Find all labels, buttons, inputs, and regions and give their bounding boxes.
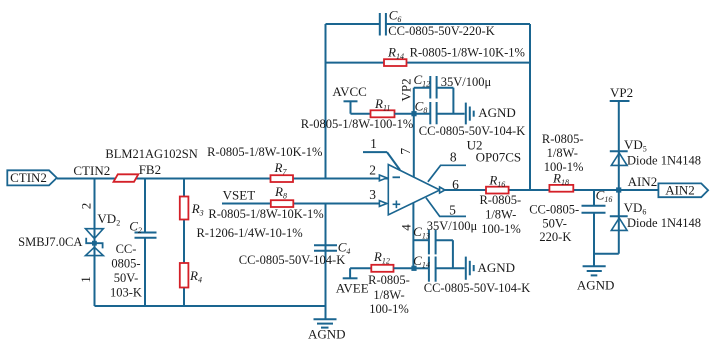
- svg-text:R-0805-1/8W-10K-1%: R-0805-1/8W-10K-1%: [208, 207, 323, 221]
- svg-text:FB2: FB2: [139, 162, 161, 177]
- svg-text:CC-0805-50V-104-K: CC-0805-50V-104-K: [239, 253, 345, 267]
- svg-text:SMBJ7.0CA: SMBJ7.0CA: [18, 235, 82, 249]
- svg-text:35V/100μ: 35V/100μ: [427, 219, 478, 233]
- svg-text:AIN2: AIN2: [665, 183, 695, 198]
- svg-text:VP2: VP2: [398, 78, 413, 101]
- svg-text:1/8W-: 1/8W-: [547, 146, 578, 160]
- svg-text:Diode 1N4148: Diode 1N4148: [627, 216, 701, 230]
- svg-text:R-0805-: R-0805-: [542, 132, 584, 146]
- svg-text:3: 3: [369, 187, 376, 202]
- svg-text:Diode 1N4148: Diode 1N4148: [627, 153, 701, 167]
- svg-text:AGND: AGND: [308, 327, 346, 342]
- svg-text:6: 6: [452, 177, 459, 192]
- svg-text:VSET: VSET: [223, 187, 256, 202]
- svg-text:0805-: 0805-: [111, 257, 140, 271]
- svg-text:R-0805-1/8W-10K-1%: R-0805-1/8W-10K-1%: [207, 145, 322, 159]
- svg-text:AIN2: AIN2: [628, 174, 658, 189]
- svg-text:OP07CS: OP07CS: [476, 149, 522, 164]
- svg-text:AVEE: AVEE: [336, 280, 369, 295]
- svg-text:AVCC: AVCC: [332, 84, 366, 99]
- svg-text:100-1%: 100-1%: [481, 222, 521, 236]
- svg-text:1: 1: [370, 136, 377, 151]
- svg-text:CTIN2: CTIN2: [73, 163, 110, 178]
- svg-text:1/8W-: 1/8W-: [485, 208, 516, 222]
- svg-text:1/8W-: 1/8W-: [373, 288, 404, 302]
- svg-text:BLM21AG102SN: BLM21AG102SN: [105, 147, 197, 161]
- svg-text:CC-0805-: CC-0805-: [529, 202, 579, 216]
- svg-text:5: 5: [449, 203, 456, 218]
- svg-text:CC-0805-50V-104-K: CC-0805-50V-104-K: [424, 281, 530, 295]
- svg-text:50V-: 50V-: [114, 271, 139, 285]
- svg-text:35V/100μ: 35V/100μ: [441, 75, 492, 89]
- svg-text:2: 2: [79, 203, 94, 210]
- svg-text:100-1%: 100-1%: [544, 160, 584, 174]
- svg-text:8: 8: [450, 150, 457, 165]
- svg-text:CC-0805-50V-104-K: CC-0805-50V-104-K: [419, 124, 525, 138]
- svg-text:CC-: CC-: [116, 242, 137, 256]
- svg-text:R-0805-: R-0805-: [479, 193, 521, 207]
- svg-text:AGND: AGND: [478, 260, 516, 275]
- svg-text:R-1206-1/4W-10-1%: R-1206-1/4W-10-1%: [196, 226, 302, 240]
- svg-text:VP2: VP2: [610, 85, 633, 100]
- svg-text:CC-0805-50V-220-K: CC-0805-50V-220-K: [388, 24, 494, 38]
- svg-text:AGND: AGND: [478, 105, 516, 120]
- svg-text:R-0805-1/8W-10K-1%: R-0805-1/8W-10K-1%: [410, 46, 525, 60]
- svg-text:100-1%: 100-1%: [369, 302, 409, 316]
- svg-text:R-0805-: R-0805-: [368, 273, 410, 287]
- svg-text:103-K: 103-K: [110, 286, 142, 300]
- svg-text:4: 4: [398, 224, 413, 231]
- svg-text:2: 2: [369, 162, 376, 177]
- svg-text:50V-: 50V-: [542, 216, 567, 230]
- svg-text:CTIN2: CTIN2: [10, 170, 47, 185]
- svg-text:AGND: AGND: [577, 278, 615, 293]
- svg-text:7: 7: [398, 148, 413, 155]
- svg-text:1: 1: [78, 276, 93, 283]
- svg-text:220-K: 220-K: [539, 230, 571, 244]
- svg-text:R-0805-1/8W-100-1%: R-0805-1/8W-100-1%: [301, 117, 413, 131]
